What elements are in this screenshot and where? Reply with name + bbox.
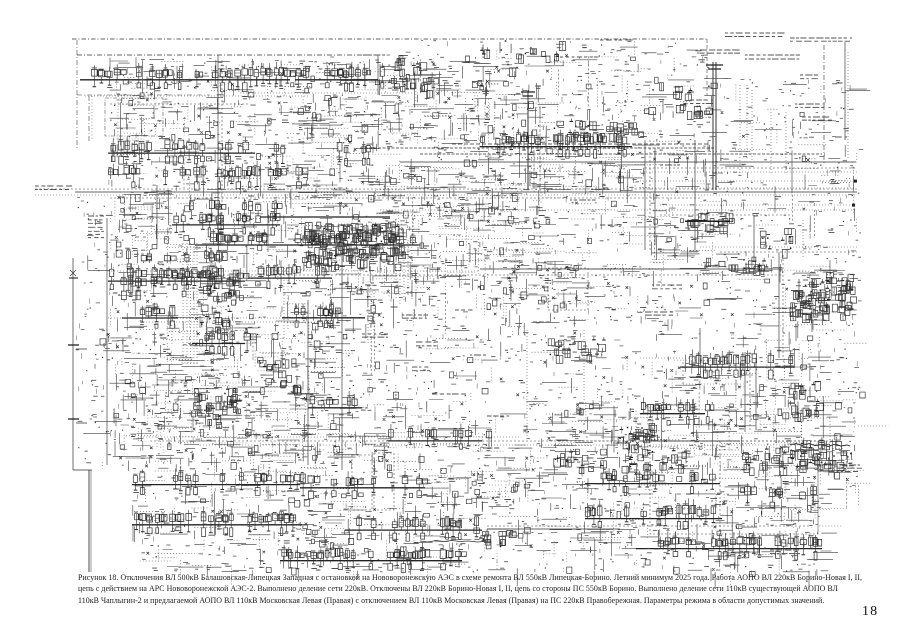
wiring mesh 4 bbox=[432, 56, 520, 96]
wire vertical x779 bundle bbox=[779, 252, 783, 358]
wiring mesh 24 bbox=[242, 391, 308, 430]
bus corridor y437-445 bbox=[140, 437, 832, 445]
label block 24 bbox=[362, 334, 388, 337]
substation row 26 bbox=[585, 467, 720, 496]
wiring mesh 22 bbox=[295, 367, 308, 380]
wire dotted x584 and y358 bbox=[584, 330, 745, 400]
label block 31 bbox=[470, 354, 486, 356]
substation row 17 bbox=[680, 349, 795, 379]
left margin breaker 1 bbox=[69, 270, 78, 278]
wiring mesh 37 bbox=[425, 470, 543, 508]
wire vertical bundle x645 bbox=[645, 140, 655, 250]
wiring mesh 15 bbox=[368, 307, 438, 327]
dense cluster 15 bbox=[554, 449, 607, 474]
texture grain bbox=[75, 40, 863, 576]
dense cluster 9 bbox=[388, 56, 437, 100]
substation row 22 bbox=[300, 471, 428, 499]
wire top dash-dot boundary bbox=[72, 38, 707, 40]
substation row 14 bbox=[122, 306, 178, 329]
wiring mesh 19 bbox=[605, 269, 645, 310]
substation row 19 bbox=[308, 391, 362, 417]
label block 2 bbox=[88, 216, 104, 238]
wiring mesh 5 bbox=[546, 47, 709, 122]
label block 5 bbox=[700, 50, 740, 53]
substation row 3 bbox=[108, 136, 255, 165]
label block 21 bbox=[363, 54, 385, 56]
label block 17 bbox=[828, 465, 862, 472]
dense cluster 5 bbox=[194, 386, 243, 430]
substation row 18 bbox=[640, 397, 714, 424]
substation row 20 bbox=[388, 424, 492, 451]
label block 20 bbox=[600, 39, 633, 41]
substation row 11 bbox=[108, 262, 249, 292]
dense cluster 6 bbox=[783, 381, 824, 421]
dashed region bottom-right bbox=[575, 441, 818, 534]
dense cluster 19 bbox=[643, 82, 721, 120]
wire vertical x218 pair bbox=[218, 55, 222, 245]
wiring mesh 43 bbox=[856, 153, 858, 163]
dense cluster 7 bbox=[685, 210, 734, 237]
bus corridor y148-174 right bbox=[360, 148, 857, 188]
label block 28 bbox=[432, 393, 466, 395]
wiring mesh 3 bbox=[424, 97, 545, 140]
label block 13 bbox=[487, 415, 509, 417]
caption line 2 bbox=[78, 584, 838, 593]
wire dashed y144 bbox=[452, 143, 710, 145]
dense cluster 1 bbox=[300, 222, 409, 274]
wire y268 long bbox=[108, 269, 782, 275]
wire left margin vertical bbox=[73, 258, 92, 572]
wiring mesh 41 bbox=[722, 465, 818, 528]
label block 26 bbox=[416, 342, 438, 346]
dense cluster 13 bbox=[742, 446, 807, 475]
wire vertical x157 bbox=[156, 185, 158, 245]
wire wavy y445 right bbox=[790, 418, 850, 451]
wiring mesh 30 bbox=[668, 120, 851, 190]
wiring mesh 8 bbox=[109, 191, 172, 243]
label block 7 bbox=[800, 75, 818, 79]
wiring mesh 23 bbox=[368, 360, 475, 392]
wire dashed verticals x534-540 bbox=[534, 120, 540, 192]
wire connector verticals bbox=[121, 56, 854, 570]
label block 4 bbox=[790, 38, 852, 41]
label block 8 bbox=[795, 104, 825, 107]
dense cluster 3 bbox=[790, 272, 858, 325]
wire vertical x342 bbox=[341, 245, 343, 470]
wire top frame bbox=[77, 39, 707, 150]
wire vertical x745 bundle bbox=[745, 352, 756, 432]
wiring mesh 42 bbox=[813, 417, 856, 440]
label block 19 bbox=[560, 56, 598, 58]
label block 11 bbox=[690, 100, 714, 104]
substation row 1 bbox=[80, 61, 296, 92]
substation row 9 bbox=[195, 228, 420, 245]
label block 12 bbox=[660, 164, 680, 166]
label block 18 bbox=[770, 550, 800, 554]
wire vertical x700 mid bbox=[699, 328, 701, 362]
wire vertical x845 bbox=[844, 42, 846, 140]
dense cluster 4 bbox=[258, 359, 301, 395]
label block 6 bbox=[745, 55, 800, 59]
wire vertical dotted bundle x740-752 bbox=[740, 85, 803, 262]
label block 30 bbox=[455, 309, 473, 311]
label block 15 bbox=[652, 285, 682, 289]
wire dotted bundle x183-197 bbox=[108, 243, 340, 365]
wiring mesh base bbox=[83, 42, 888, 589]
dashed region x352 bbox=[352, 453, 394, 510]
wire vertical x818 dashed bbox=[817, 463, 819, 532]
wiring mesh 18 bbox=[481, 264, 548, 335]
wiring mesh 31 bbox=[674, 356, 745, 395]
label block 9 bbox=[802, 117, 832, 120]
wiring mesh 25 bbox=[370, 393, 471, 420]
wire vertical x812 bbox=[811, 278, 813, 332]
substation row 28 bbox=[636, 531, 822, 561]
wiring mesh 17 bbox=[406, 338, 480, 360]
substation row 27 bbox=[585, 499, 722, 529]
wiring mesh 26 bbox=[484, 361, 547, 462]
wiring mesh 40 bbox=[543, 533, 636, 574]
wiring mesh 34 bbox=[265, 430, 388, 465]
wiring mesh 36 bbox=[684, 450, 738, 468]
wiring mesh 27 bbox=[559, 356, 641, 398]
bus corridor y247 right bbox=[700, 247, 857, 252]
substation row 13 bbox=[248, 259, 332, 288]
wiring mesh 21 bbox=[122, 354, 263, 387]
substation row 29 bbox=[745, 483, 817, 507]
dense cluster 2 bbox=[618, 421, 657, 454]
dashed region x548 bbox=[548, 268, 588, 310]
substation row 15 bbox=[282, 299, 375, 328]
wire dotted top sublines bbox=[85, 93, 420, 104]
substation row 2 bbox=[295, 63, 384, 91]
wiring mesh 33 bbox=[120, 425, 261, 469]
wiring mesh 20 bbox=[652, 300, 790, 350]
wiring mesh 16 bbox=[253, 337, 330, 358]
dense cluster 16 bbox=[622, 448, 687, 474]
bus corridor y190 bbox=[35, 189, 857, 198]
label block 3 bbox=[725, 33, 785, 37]
dense cluster 11 bbox=[546, 118, 644, 146]
wiring mesh 28 bbox=[542, 399, 620, 448]
substation row 23 bbox=[132, 506, 302, 536]
dense cluster 8 bbox=[760, 228, 794, 258]
label block 27 bbox=[412, 367, 430, 371]
dense cluster 14 bbox=[800, 437, 853, 471]
wire dotted vertical bundle x395-410 bbox=[396, 240, 412, 305]
label block 16 bbox=[645, 312, 673, 315]
wiring mesh 10 bbox=[422, 200, 540, 232]
label block 29 bbox=[533, 321, 550, 323]
wiring mesh 35 bbox=[485, 445, 549, 466]
label block 14 bbox=[483, 447, 499, 449]
wire y525 long dotted bbox=[420, 526, 810, 542]
substation row 10 bbox=[126, 245, 227, 263]
dense column x200 bbox=[197, 266, 239, 336]
label block 25 bbox=[402, 315, 428, 318]
substation row 25 bbox=[280, 543, 466, 573]
wiring mesh 39 bbox=[497, 544, 535, 572]
wiring mesh 32 bbox=[765, 321, 812, 380]
dense cluster 18 bbox=[703, 257, 768, 275]
wire vertical x824 dashdot bbox=[824, 45, 848, 165]
wire vertical x107 bbox=[106, 218, 108, 465]
wire vertical x713 double bbox=[706, 62, 723, 190]
wiring mesh 6 bbox=[259, 166, 420, 198]
wire vertical x308 bbox=[307, 300, 309, 465]
substation row 24 bbox=[345, 513, 482, 541]
wiring mesh left-mid bbox=[120, 391, 198, 432]
wiring mesh 11 bbox=[544, 161, 645, 246]
substation row 7 bbox=[189, 194, 282, 224]
substation row 4 bbox=[274, 139, 372, 166]
substation row 8 bbox=[172, 209, 280, 237]
dense cluster 17 bbox=[479, 530, 519, 549]
wiring mesh 2 bbox=[266, 96, 421, 140]
substation row 12 bbox=[121, 273, 239, 300]
left margin tick 3 bbox=[68, 419, 87, 423]
wiring mesh 1 bbox=[114, 98, 259, 136]
label block 23 bbox=[600, 224, 622, 226]
wire vertical x695 bbox=[694, 140, 696, 250]
wire dotted bundle x368 bbox=[368, 285, 527, 437]
wiring mesh 12 bbox=[432, 241, 542, 290]
dense cluster 10 bbox=[480, 40, 565, 76]
wiring mesh 14 bbox=[333, 268, 438, 298]
substation row 16 bbox=[192, 325, 256, 355]
dense cluster 12 bbox=[548, 336, 606, 363]
page number bbox=[862, 604, 878, 620]
bus corridor y205-215 bbox=[380, 204, 855, 215]
wiring mesh 13 bbox=[542, 254, 590, 310]
caption line 1 bbox=[78, 573, 862, 582]
wire dotted verticals below top row bbox=[92, 96, 118, 145]
left margin tick 2 bbox=[68, 345, 87, 349]
wiring mesh 9 bbox=[286, 199, 420, 233]
wire vertical x528 capacitor bbox=[521, 90, 535, 190]
wiring mesh 38 bbox=[303, 504, 348, 549]
label block 10 bbox=[835, 136, 847, 138]
substation row 5 bbox=[108, 161, 308, 190]
label block 1 bbox=[35, 186, 72, 190]
label block 22 bbox=[570, 199, 596, 201]
wire bus y217 bbox=[260, 216, 390, 218]
substation row 6 bbox=[480, 128, 632, 158]
caption line 3 bbox=[78, 596, 824, 605]
wiring mesh 7 bbox=[420, 166, 540, 228]
substation row 21 bbox=[132, 466, 300, 495]
wiring mesh 29 bbox=[709, 403, 766, 430]
